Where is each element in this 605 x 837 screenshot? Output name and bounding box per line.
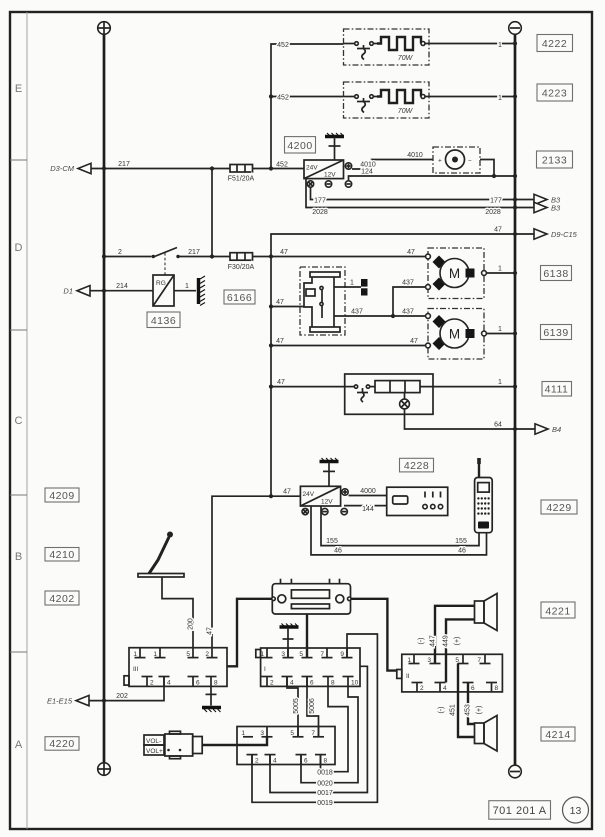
svg-text:2: 2 xyxy=(270,680,274,687)
svg-text:1: 1 xyxy=(133,651,137,658)
mechanical link switch to relay 4136 xyxy=(164,253,166,275)
wire 47 to cigar lighter 4111 xyxy=(271,386,345,388)
connector III pin 6 bottom xyxy=(192,677,194,687)
heated element unit 4223 dash-dot enclosure xyxy=(344,82,430,118)
svg-text:451: 451 xyxy=(450,704,457,716)
wire 200 antenna to radio connector xyxy=(162,577,193,648)
svg-text:155: 155 xyxy=(455,538,467,545)
connector II pin 4 bottom (wire 449) xyxy=(439,683,441,692)
svg-text:8: 8 xyxy=(214,680,218,687)
wire 1 lock switch to connector flag xyxy=(334,286,361,288)
svg-text:−: − xyxy=(468,158,472,165)
svg-text:4214: 4214 xyxy=(545,729,570,741)
svg-text:M: M xyxy=(449,266,460,281)
connector II pin 5 (wire 451) xyxy=(462,654,464,663)
connector III pin 2 bottom xyxy=(146,677,148,687)
door lock switch dash-dot enclosure xyxy=(300,267,345,335)
wire 217 switch to fuse xyxy=(180,256,231,258)
svg-text:144: 144 xyxy=(362,506,374,513)
svg-text:1: 1 xyxy=(153,651,157,658)
junction 47 branch to motor 6139 xyxy=(269,343,273,347)
svg-text:47: 47 xyxy=(280,249,288,256)
svg-text:4209: 4209 xyxy=(49,490,74,502)
wire 1 element 4223 to ground bus xyxy=(429,96,515,98)
interface pin 3 xyxy=(266,727,268,737)
svg-text:III: III xyxy=(133,666,139,673)
interface pin 1 xyxy=(243,736,253,738)
component label box 2133 xyxy=(537,151,573,168)
junction 47 branch to lock switch xyxy=(269,304,273,308)
arrow to B3 (wire 177) xyxy=(534,194,547,204)
connector II pin 8 bottom xyxy=(491,683,493,692)
svg-text:E1-E15: E1-E15 xyxy=(47,696,73,705)
steering wheel remote VOL- button xyxy=(144,735,164,745)
svg-text:D1: D1 xyxy=(63,286,73,295)
svg-text:1: 1 xyxy=(260,651,264,658)
component label box 6138 xyxy=(541,266,572,281)
connector II pin 3 (wire 447) xyxy=(434,654,436,663)
svg-text:217: 217 xyxy=(118,161,130,168)
svg-text:8: 8 xyxy=(495,685,499,692)
svg-text:D: D xyxy=(15,242,23,254)
junction 452 branch xyxy=(269,94,273,98)
wire radio right knob to speaker connector II xyxy=(351,599,397,671)
wire 437 branch to motor 6139 xyxy=(393,315,426,317)
interface pin 7 xyxy=(318,727,320,737)
svg-text:47: 47 xyxy=(276,338,284,345)
telephone handset 4229 xyxy=(475,458,493,533)
heating resistor 70W of 4222 xyxy=(377,37,421,50)
svg-text:47: 47 xyxy=(410,338,418,345)
junction 47 branch to cigar lighter xyxy=(269,385,273,389)
arrow to B3 (wire 2028) xyxy=(534,202,547,212)
svg-text:5: 5 xyxy=(186,651,190,658)
svg-text:214: 214 xyxy=(116,283,128,290)
cigar lighter switch contacts xyxy=(345,385,375,402)
component label box 4202 xyxy=(45,591,79,605)
wire 4010 relay to pump motor xyxy=(352,160,433,170)
svg-text:437: 437 xyxy=(402,308,414,315)
element 4223 internal wiring and thermal switch xyxy=(344,95,378,113)
wire radio to connector I pin 5 xyxy=(306,614,308,658)
wire 214 from bus to relay 4136 xyxy=(90,290,153,292)
wire 0017 interface pin4 to connector I side xyxy=(270,666,367,792)
car radio head unit xyxy=(272,579,351,614)
svg-text:5: 5 xyxy=(290,730,294,737)
svg-text:5: 5 xyxy=(455,657,459,664)
wire 155 relay to handset xyxy=(321,506,479,546)
wire 64 lamp to B4 xyxy=(405,409,536,429)
wire 0019 interface pin2 to connector I pin9 xyxy=(252,634,377,802)
svg-text:(+): (+) xyxy=(476,706,483,715)
svg-text:6166: 6166 xyxy=(227,292,252,304)
svg-text:1: 1 xyxy=(498,95,502,102)
wire radio left knob to connector III xyxy=(227,599,272,667)
wire 144 relay to radio-phone unit xyxy=(344,505,387,507)
junction wire 217 drop xyxy=(210,166,214,170)
arrow to D9-C15 xyxy=(534,229,547,239)
wire 47 distribution corner to radio supply relay xyxy=(212,496,300,648)
wire 5005 connector I pin4 to interface pin 5 xyxy=(287,677,298,737)
junction on left bus xyxy=(102,166,106,170)
fuse F51/20A xyxy=(230,165,253,173)
svg-text:5005: 5005 xyxy=(293,698,300,714)
ground above radio connector I xyxy=(280,624,299,658)
illumination lamp of 4111 xyxy=(400,393,410,409)
svg-text:RG: RG xyxy=(156,280,166,287)
junction 452 at fuse line xyxy=(269,166,273,170)
svg-text:8: 8 xyxy=(324,758,328,765)
interface pin 2 bottom xyxy=(251,755,253,765)
svg-text:2: 2 xyxy=(420,685,424,692)
wire 451 pin 5 to rear speaker xyxy=(458,664,475,738)
speaker connector II housing xyxy=(397,654,503,692)
wire D3-CM feed line across section E xyxy=(91,168,230,170)
cigar lighter 4111 housing xyxy=(345,374,433,414)
radio telephone unit 4228 xyxy=(387,487,448,515)
svg-text:2133: 2133 xyxy=(542,155,567,167)
svg-text:4111: 4111 xyxy=(545,384,569,396)
connector I pin 8 bottom (wire 0018) xyxy=(327,677,329,687)
section tick B/A xyxy=(10,651,27,653)
wire remote to CD interface pin 3 xyxy=(202,737,267,745)
plus terminal bottom of left bus xyxy=(98,763,111,776)
svg-text:200: 200 xyxy=(188,618,195,630)
component label box 4223 xyxy=(537,84,573,101)
svg-text:6139: 6139 xyxy=(543,327,568,339)
radio main connector I housing xyxy=(256,648,360,686)
svg-text:0017: 0017 xyxy=(317,790,333,797)
svg-text:452: 452 xyxy=(276,162,288,169)
connector I pin 10 bottom (wire 0020) xyxy=(347,677,349,687)
sheet number circle 13 xyxy=(563,797,589,823)
arrow to B4 xyxy=(535,424,548,434)
pump motor 2133 xyxy=(438,150,472,169)
relay RG 4136 xyxy=(153,275,174,306)
svg-text:+: + xyxy=(438,158,442,165)
remote control connector body xyxy=(165,731,202,758)
svg-text:B3: B3 xyxy=(551,204,561,213)
left margin column line xyxy=(26,12,28,829)
lock motor 6139 xyxy=(426,314,487,350)
arrow to D1 xyxy=(77,286,90,297)
wire 1 from 4111 to ground bus xyxy=(420,386,515,388)
svg-text:1: 1 xyxy=(241,730,245,737)
svg-text:C: C xyxy=(15,415,23,427)
svg-text:2: 2 xyxy=(150,680,154,687)
plus terminal of relay 4200 xyxy=(345,163,351,169)
svg-text:4: 4 xyxy=(167,680,171,687)
svg-text:4200: 4200 xyxy=(287,140,312,152)
svg-text:7: 7 xyxy=(320,651,324,658)
wire 47 to lock motor 6139 xyxy=(271,345,426,347)
interface pin 5 xyxy=(297,727,299,737)
svg-text:3: 3 xyxy=(260,730,264,737)
svg-text:4: 4 xyxy=(273,758,277,765)
svg-text:4229: 4229 xyxy=(546,502,571,514)
component label box 4210 xyxy=(45,548,79,562)
svg-text:4: 4 xyxy=(443,685,447,692)
connector I pin 1 xyxy=(266,648,268,658)
lock motor 6138 xyxy=(426,254,487,290)
component label box 4111 xyxy=(542,382,572,397)
connector I pin 3 (ground) xyxy=(287,648,289,658)
svg-text:(-): (-) xyxy=(438,707,445,714)
wire 4000 relay to radio-phone unit xyxy=(349,495,387,497)
svg-text:6: 6 xyxy=(471,685,475,692)
svg-text:(+): (+) xyxy=(454,637,461,646)
svg-text:64: 64 xyxy=(494,421,502,428)
component label box 6166 xyxy=(224,290,255,304)
svg-text:M: M xyxy=(449,327,460,342)
wire 449 pin 4 to front speaker xyxy=(446,619,475,682)
wire 452 to element 4223 xyxy=(271,96,344,98)
plus terminal of radio relay xyxy=(342,489,348,495)
svg-text:6: 6 xyxy=(196,680,200,687)
left supply bus (+) xyxy=(103,35,106,764)
lock motor 6139 dash-dot enclosure xyxy=(428,309,484,360)
svg-text:1: 1 xyxy=(498,265,502,272)
arrow to E1-E15 xyxy=(76,695,89,705)
section tick C/B xyxy=(10,494,27,496)
svg-text:0019: 0019 xyxy=(317,800,333,807)
connector III pin 1 xyxy=(139,648,141,658)
ground below connector III pin 8 xyxy=(202,686,221,712)
svg-text:B: B xyxy=(15,551,22,563)
connector III pin 2 (supply wire 47) xyxy=(211,648,213,658)
svg-text:452: 452 xyxy=(277,42,289,49)
svg-text:F51/20A: F51/20A xyxy=(228,176,255,183)
minus terminals of relay 4200 xyxy=(307,181,313,187)
section tick D/C xyxy=(10,329,27,331)
svg-text:4: 4 xyxy=(290,680,294,687)
wire 47 distribution vertical and branch to D9-C15 xyxy=(271,234,534,496)
svg-text:46: 46 xyxy=(458,547,466,554)
connector I pin 6 bottom (wire 5006) xyxy=(306,677,308,687)
steering wheel remote VOL+ button xyxy=(144,745,164,755)
svg-text:9: 9 xyxy=(340,651,344,658)
svg-text:6138: 6138 xyxy=(543,268,568,280)
svg-text:4222: 4222 xyxy=(542,38,567,50)
component label box 4214 xyxy=(541,727,575,741)
svg-text:2: 2 xyxy=(118,249,122,256)
svg-text:4210: 4210 xyxy=(49,549,74,561)
svg-text:7: 7 xyxy=(311,730,315,737)
connector II pin 2 bottom xyxy=(416,683,418,692)
svg-text:(-): (-) xyxy=(418,638,425,645)
CD changer interface housing xyxy=(237,727,335,765)
svg-text:4010: 4010 xyxy=(360,162,376,169)
connector I pin 2 bottom xyxy=(266,677,268,687)
svg-text:VOL+: VOL+ xyxy=(146,748,163,755)
wire 437 from lock switch xyxy=(334,315,393,317)
title block 701 201 A xyxy=(489,801,551,820)
svg-text:449: 449 xyxy=(442,635,449,647)
heated element unit 4222 dash-dot enclosure xyxy=(344,29,430,65)
connector I pin 4 bottom (wire 5005) xyxy=(286,677,288,687)
wire 1 relay 4136 to ground xyxy=(174,290,196,292)
plus terminal top of left bus xyxy=(98,22,111,35)
ground above relay 4200 xyxy=(325,133,344,160)
connector II pin 1 xyxy=(413,654,415,663)
wire 2028 to connector B3 xyxy=(306,179,534,208)
svg-text:2028: 2028 xyxy=(312,209,328,216)
voltage reducer relay 4200 24V/12V xyxy=(304,160,344,179)
svg-text:I: I xyxy=(264,666,266,673)
svg-text:4010: 4010 xyxy=(407,152,423,159)
svg-text:0018: 0018 xyxy=(317,769,333,776)
svg-text:3: 3 xyxy=(281,651,285,658)
svg-text:12V: 12V xyxy=(324,172,336,179)
svg-text:202: 202 xyxy=(116,693,128,700)
svg-text:4223: 4223 xyxy=(542,88,567,100)
connector I pin 7 xyxy=(326,648,328,658)
svg-text:47: 47 xyxy=(494,226,502,233)
svg-text:4220: 4220 xyxy=(49,738,74,750)
interface pin 8 bottom xyxy=(320,755,322,765)
svg-text:47: 47 xyxy=(283,489,291,496)
wire 2 from plus bus to switch xyxy=(104,256,152,258)
svg-text:701 201 A: 701 201 A xyxy=(493,805,547,817)
wire 217 vertical link to section D xyxy=(211,169,213,257)
svg-text:6: 6 xyxy=(304,758,308,765)
lock motor 6138 dash-dot enclosure xyxy=(428,248,484,299)
component label box 4221 xyxy=(541,602,575,618)
svg-text:D9-C15: D9-C15 xyxy=(551,230,578,239)
svg-text:177: 177 xyxy=(490,197,502,204)
connector III pin 4 bottom (wire 202) xyxy=(163,677,165,687)
svg-text:13: 13 xyxy=(570,805,582,817)
svg-text:3: 3 xyxy=(427,657,431,664)
wire 0020 interface pin6 to connector I pin10 xyxy=(301,686,358,782)
svg-text:4000: 4000 xyxy=(360,488,376,495)
svg-text:12V: 12V xyxy=(321,499,333,506)
svg-text:217: 217 xyxy=(188,249,200,256)
wire 1 motor 6138 to ground bus xyxy=(486,272,515,274)
svg-text:70W: 70W xyxy=(398,108,414,115)
component label box 6139 xyxy=(541,325,572,340)
svg-text:D3-CM: D3-CM xyxy=(50,164,75,173)
wire motor return loop xyxy=(480,160,494,177)
door lock switch mechanism xyxy=(304,272,340,332)
element 4222 internal wiring and thermal switch xyxy=(344,42,378,60)
right ground bus (-) xyxy=(514,35,517,766)
svg-text:124: 124 xyxy=(361,169,373,176)
wire 452 fuse to relay 4200 xyxy=(253,168,305,170)
component label box 4220 xyxy=(45,737,79,751)
front speaker 4221 xyxy=(475,594,498,631)
connector II pin 7 xyxy=(484,654,486,663)
wire 1 element 4222 to ground bus xyxy=(429,43,515,45)
voltage reducer relay for radio 24V/12V xyxy=(300,486,340,506)
component label box 4209 xyxy=(45,488,79,502)
svg-text:E: E xyxy=(15,83,22,95)
svg-text:24V: 24V xyxy=(303,491,315,498)
rear speaker 4214 xyxy=(475,716,498,752)
svg-text:4228: 4228 xyxy=(404,460,429,472)
svg-text:10: 10 xyxy=(351,680,359,687)
svg-text:452: 452 xyxy=(277,94,289,101)
pump motor 2133 dash-dot enclosure xyxy=(433,147,480,173)
wire 1 motor 6139 to ground bus xyxy=(486,333,515,335)
svg-text:47: 47 xyxy=(277,379,285,386)
wire 453 pin 6 to rear speaker xyxy=(468,683,475,725)
svg-text:2: 2 xyxy=(205,651,209,658)
svg-text:24V: 24V xyxy=(306,165,318,172)
svg-text:7: 7 xyxy=(477,657,481,664)
fuse F30/20A xyxy=(230,253,253,261)
switch contacts and blade xyxy=(152,255,155,258)
svg-text:453: 453 xyxy=(464,704,471,716)
wire 46 relay to handset xyxy=(311,506,487,555)
component label box 4222 xyxy=(537,35,573,52)
heating element blocks of 4111 xyxy=(375,381,420,393)
wire 47 to lock switch unit xyxy=(271,306,304,308)
wire 124 to ground bus xyxy=(349,176,516,180)
component label box 4229 xyxy=(541,500,577,514)
black connector flag xyxy=(361,279,368,296)
wire 437 branch to motor 6138 xyxy=(393,287,426,316)
interface pin 4 bottom xyxy=(269,755,271,765)
svg-text:6: 6 xyxy=(310,680,314,687)
svg-text:70W: 70W xyxy=(398,55,414,62)
heating resistor 70W of 4223 xyxy=(377,90,421,103)
connector III pin 8 bottom (ground) xyxy=(210,677,212,687)
svg-text:5006: 5006 xyxy=(309,698,316,714)
connector II pin 6 bottom (wire 453) xyxy=(467,683,469,692)
svg-text:1: 1 xyxy=(498,42,502,49)
svg-text:F30/20A: F30/20A xyxy=(228,264,255,271)
connector I pin 5 (radio feed) xyxy=(306,648,308,658)
wire 447 pin 3 to front speaker xyxy=(435,606,475,664)
svg-text:1: 1 xyxy=(498,379,502,386)
svg-text:2028: 2028 xyxy=(485,209,501,216)
connector III pin 1b xyxy=(159,648,161,658)
svg-text:1: 1 xyxy=(498,326,502,333)
svg-text:0020: 0020 xyxy=(317,780,333,787)
wire 5006 connector I pin6 to interface pin 7 xyxy=(307,677,319,737)
chassis ground bar (vertical) xyxy=(199,276,206,306)
wire 202 to E1-E15 xyxy=(89,677,164,701)
svg-text:155: 155 xyxy=(326,538,338,545)
connector I pin 9 xyxy=(346,648,348,658)
svg-text:II: II xyxy=(406,673,410,680)
svg-text:1: 1 xyxy=(185,283,189,290)
svg-text:A: A xyxy=(15,739,23,751)
svg-text:47: 47 xyxy=(407,249,415,256)
svg-text:VOL-: VOL- xyxy=(146,738,161,745)
wire 47 fuse to lock motor 6138 xyxy=(253,256,426,258)
svg-text:177: 177 xyxy=(314,197,326,204)
svg-text:437: 437 xyxy=(351,308,363,315)
svg-text:437: 437 xyxy=(402,279,414,286)
svg-text:4221: 4221 xyxy=(545,606,570,618)
minus terminals of radio relay xyxy=(302,508,308,514)
svg-text:4202: 4202 xyxy=(49,593,74,605)
wire 177 to connector B3 xyxy=(311,187,535,199)
svg-text:1: 1 xyxy=(350,279,354,286)
svg-text:47: 47 xyxy=(276,299,284,306)
svg-text:47: 47 xyxy=(207,627,214,635)
interface pin 6 bottom xyxy=(300,755,302,765)
svg-text:1: 1 xyxy=(407,657,411,664)
svg-text:46: 46 xyxy=(334,547,342,554)
svg-text:447: 447 xyxy=(430,635,437,647)
component label box 4200 xyxy=(285,137,316,153)
wire 452 vertical feed from relay 4200 to heater elements xyxy=(271,44,344,169)
roof antenna xyxy=(138,532,184,578)
wire 0018 interface pin8 to connector I pin8 xyxy=(321,686,349,771)
